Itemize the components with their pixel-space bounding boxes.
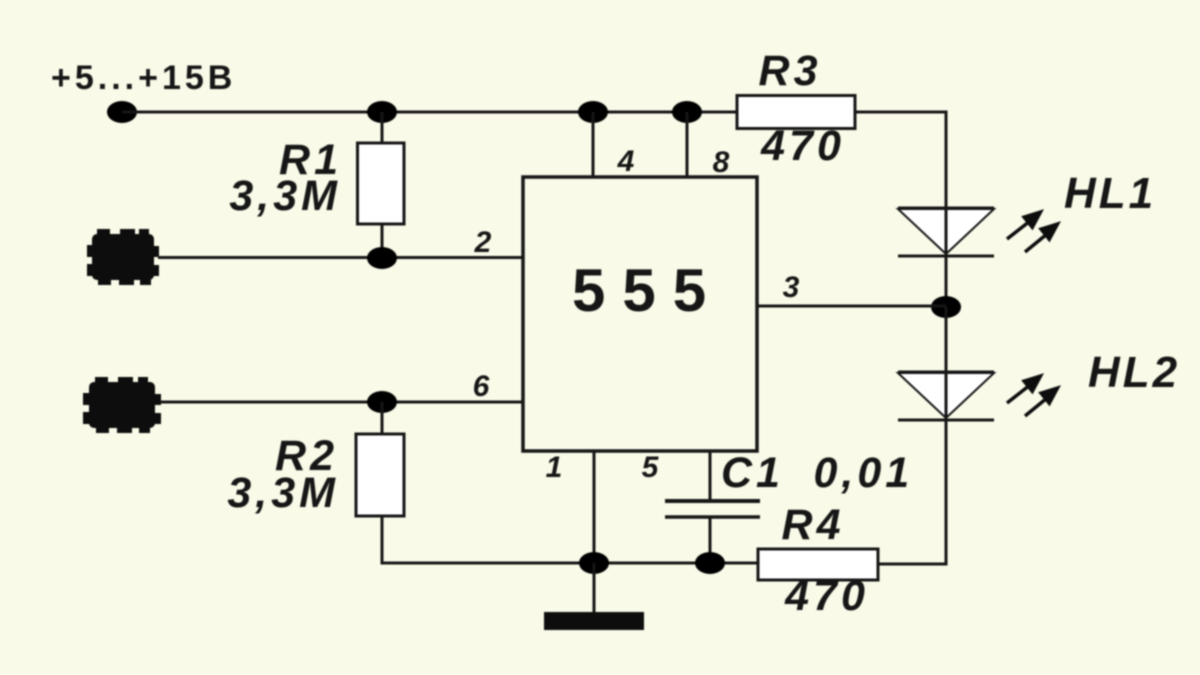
svg-text:8: 8 [713,146,730,179]
svg-text:555: 555 [572,257,723,324]
wire R4 right [878,563,948,566]
svg-text:6: 6 [473,370,490,403]
wire pin6 [160,401,523,404]
svg-text:R4: R4 [782,501,845,549]
svg-text:HL1: HL1 [1064,169,1156,218]
resistor R3 [737,96,855,129]
svg-text:1: 1 [546,451,563,484]
emission arrows HL2 [1007,374,1060,416]
wire HL1 to HL2 [945,307,948,373]
junction pin1 gnd node [579,552,609,574]
wire R1 bottom lead [381,224,384,258]
svg-text:HL2: HL2 [1088,348,1180,397]
wire pin2 [158,256,523,259]
wire R2 bottom lead [381,516,384,563]
svg-text:4: 4 [617,145,635,178]
wire ground lead [593,563,596,613]
LED HL2 [898,372,994,420]
resistor R2 [356,434,404,516]
svg-text:3,3M: 3,3M [229,172,341,220]
capacitor C1 plate top [665,499,760,503]
junction R2 top [367,391,397,413]
resistor R1 [358,143,405,224]
ground [544,612,644,630]
IC U1 555 [523,177,757,451]
svg-text:2: 2 [474,226,492,259]
junction pin5 C1 node [695,552,725,574]
touch pad E2 [83,377,161,433]
svg-text:470: 470 [784,572,869,620]
LED HL1 [898,208,994,256]
svg-text:C1 0,01: C1 0,01 [721,449,913,497]
svg-text:470: 470 [760,122,845,170]
wire R1 top lead [381,112,384,145]
wire top rail [122,111,737,114]
svg-text:3: 3 [783,271,800,304]
emission arrows HL1 [1007,210,1060,252]
power terminal dot [107,101,137,123]
wire pin1 lead [593,451,596,563]
junction R1 bottom [367,247,397,269]
wire through HL2 [945,372,948,565]
junction pin8 [672,101,702,123]
junction pin4 [578,101,608,123]
wire C1 bottom lead [709,517,712,563]
resistor R4 [758,549,878,580]
wire through HL1 [945,208,948,307]
svg-text:R3: R3 [759,47,822,95]
wire pin5 lead [709,451,712,501]
junction R1 top [367,101,397,123]
svg-text:+5...+15В: +5...+15В [51,59,236,97]
wire bottom rail [381,562,759,565]
wire pin4 lead [592,112,595,177]
wire R2 top lead [381,402,384,436]
wire pin3 [758,305,946,308]
wire pin8 lead [686,112,689,177]
touch pad E1 [87,229,159,285]
svg-text:5: 5 [642,451,660,484]
junction pin3 node [931,296,961,318]
svg-text:3,3M: 3,3M [227,469,339,517]
wire R3 to HL1 corner [855,112,946,209]
capacitor C1 plate bottom [665,515,760,519]
